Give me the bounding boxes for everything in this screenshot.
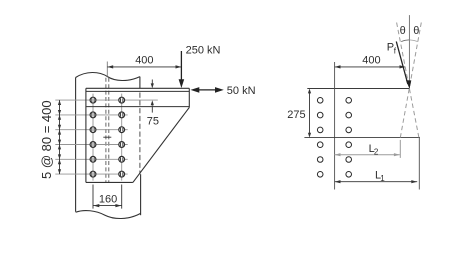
svg-text:θ: θ [413,25,419,37]
bracket top plate inner line [86,90,189,92]
angle arc right [409,40,417,42]
bolt row gridline 3 [55,129,127,131]
dimension 400 (right figure) : line and arrows [335,66,406,68]
column web hidden lines (dashed pair) [105,78,107,182]
dimension L1 : line and arrows [335,181,418,183]
bolt column centreline right [121,94,123,181]
column bottom break line [76,211,141,219]
column right flange edge upper [139,77,141,89]
column top break line [76,73,140,81]
svg-text:160: 160 [99,193,117,205]
svg-text:θ: θ [400,25,406,37]
svg-text:50 kN: 50 kN [227,85,256,97]
dimension 75 : upper arrow [151,80,153,84]
column right flange edge hidden (dashed behind gusset) [139,93,141,175]
bracket top plate upper edge [86,87,189,89]
svg-text:75: 75 [147,116,159,128]
bracket plate bottom edge [86,181,133,183]
centroid horizontal line [304,137,420,139]
bolt row gridline 5 [55,158,127,160]
svg-text:1: 1 [380,174,385,183]
bolt group centreline (vertical) [334,62,336,190]
force arrow 50 kN (double headed) [198,89,218,91]
force arrow 250 kN [180,51,182,80]
svg-text:250 kN: 250 kN [186,45,221,57]
dimension 400 (left figure) : line and arrows [107,66,181,68]
vertical reference line through apex [408,15,410,88]
force arrow Pf [396,42,408,85]
bolt shank ticks [92,98,123,176]
angle arc left [401,40,409,42]
bolt row gridline 4 [55,144,127,146]
svg-text:275: 275 [287,109,305,121]
dimension 5 @ 80 = 400 : arrowheads [58,100,61,174]
svg-text:f: f [394,47,397,56]
svg-text:400: 400 [362,55,380,67]
dimension 275 : line and arrows [309,92,311,134]
bracket plate right edge [188,88,190,107]
column left flange edge [75,78,77,212]
column right flange edge lower [140,174,142,215]
dashed inclined line A (up-left to down-right) [397,23,419,138]
top edge line [307,88,409,90]
dimension 5 @ 80 = 400 : dimension line [59,100,61,174]
bolt column centreline left [92,94,94,181]
bolts: 2 columns x 6 rows with shank ticks [90,97,125,177]
svg-text:2: 2 [374,147,379,156]
right extension line from dashed intersection [418,138,420,190]
column centreline extension above break [106,62,108,77]
bracket plate left edge [85,88,87,182]
bolt circles right figure [317,98,351,178]
dimension 75 : lower arrow [151,106,153,113]
dimension 160 : extension lines [93,185,122,209]
svg-text:5 @ 80 = 400: 5 @ 80 = 400 [39,100,54,179]
L2 tick (gray) [399,140,401,158]
dimension L2 (gray) : line and arrows [335,154,400,156]
gusset diagonal edge [133,107,189,182]
svg-text:400: 400 [135,55,153,67]
bracket top plate bottom edge [86,106,189,108]
bolt row gridline 1 (extended right for 75 dim) [55,99,158,101]
dashed inclined line B (up-right to down-left) [400,23,421,138]
bolt group centroid mark [103,136,111,138]
dimension 160 : line and arrows [93,205,122,207]
bolt row gridline 6 [55,173,127,175]
bolt row gridline 2 [55,114,127,116]
